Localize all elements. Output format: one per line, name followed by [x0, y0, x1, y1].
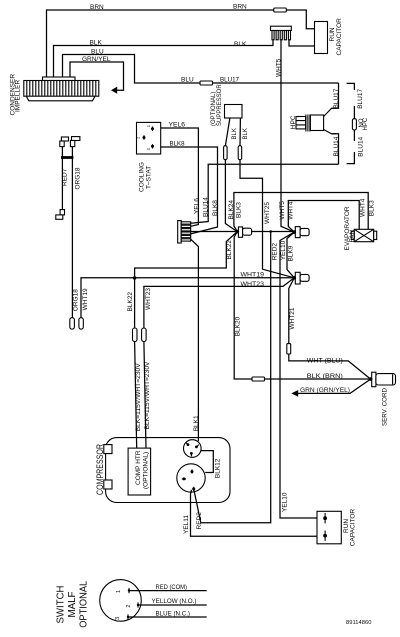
svg-text:WHT21: WHT21 — [289, 307, 296, 329]
svg-text:HPC: HPC — [363, 117, 369, 130]
svg-text:BLU14: BLU14 — [333, 136, 340, 156]
svg-text:BLK (BRN): BLK (BRN) — [307, 373, 343, 380]
svg-text:WHT4: WHT4 — [287, 201, 294, 220]
svg-text:WHT25: WHT25 — [264, 202, 271, 224]
svg-text:BLK20: BLK20 — [235, 316, 242, 336]
svg-text:BLK: BLK — [243, 128, 249, 139]
svg-text:BLK24: BLK24 — [228, 200, 235, 220]
svg-text:BLK22: BLK22 — [127, 292, 134, 312]
svg-text:BLU17: BLU17 — [220, 76, 239, 83]
svg-text:CAPACITOR: CAPACITOR — [349, 509, 356, 547]
svg-text:WHT (BLU): WHT (BLU) — [307, 357, 343, 364]
svg-text:BLU14: BLU14 — [358, 136, 365, 156]
svg-text:YEL11: YEL11 — [183, 515, 190, 534]
svg-text:WHT5: WHT5 — [276, 58, 283, 77]
svg-text:RED (COM): RED (COM) — [156, 584, 188, 591]
svg-text:YEL6: YEL6 — [169, 121, 186, 128]
svg-text:BLK1: BLK1 — [193, 415, 200, 431]
svg-text:COMP HTR: COMP HTR — [135, 450, 142, 485]
svg-text:BLK3: BLK3 — [236, 202, 243, 218]
svg-text:CAPACITOR: CAPACITOR — [336, 18, 343, 56]
svg-text:RED7: RED7 — [61, 168, 68, 186]
svg-text:T–STAT: T–STAT — [145, 166, 152, 189]
svg-text:WHT23: WHT23 — [241, 281, 265, 288]
svg-text:BLUE (N.C.): BLUE (N.C.) — [156, 611, 191, 618]
svg-text:GRN (GRN/YEL): GRN (GRN/YEL) — [300, 387, 350, 394]
svg-text:2: 2 — [126, 605, 132, 608]
svg-text:BLK3: BLK3 — [369, 200, 376, 216]
svg-text:BRN: BRN — [90, 4, 104, 11]
svg-text:WHT19: WHT19 — [82, 288, 89, 310]
svg-text:GRN/YEL: GRN/YEL — [82, 56, 111, 63]
svg-text:BLK9: BLK9 — [288, 245, 295, 261]
svg-text:89114860: 89114860 — [346, 620, 372, 626]
svg-text:YELLOW (N.O.): YELLOW (N.O.) — [152, 598, 197, 605]
svg-text:FAN: FAN — [349, 230, 356, 243]
svg-text:BLK8: BLK8 — [170, 141, 185, 148]
svg-text:BLK=115V/WHT=230V: BLK=115V/WHT=230V — [136, 363, 142, 431]
svg-text:BLU: BLU — [91, 49, 104, 56]
svg-text:WHT5: WHT5 — [279, 201, 286, 220]
svg-text:HPC: HPC — [290, 115, 297, 129]
svg-text:YEL6: YEL6 — [194, 198, 201, 214]
svg-text:EVAPORATOR: EVAPORATOR — [344, 206, 351, 250]
svg-text:(OPTIONAL): (OPTIONAL) — [143, 452, 150, 489]
svg-text:BLU17: BLU17 — [357, 89, 364, 109]
svg-text:BLU17: BLU17 — [333, 88, 340, 108]
svg-text:RED2: RED2 — [196, 512, 203, 530]
svg-text:SWITCH: SWITCH — [55, 586, 66, 624]
svg-text:SERV. CORD: SERV. CORD — [381, 388, 388, 426]
svg-text:BLK=115V/WHT=230V: BLK=115V/WHT=230V — [145, 362, 151, 430]
svg-text:BLU: BLU — [181, 76, 194, 83]
svg-text:BLU14: BLU14 — [203, 197, 210, 217]
svg-text:COOLING: COOLING — [138, 162, 145, 192]
svg-text:YEL10: YEL10 — [282, 492, 289, 512]
svg-text:WHT23: WHT23 — [145, 288, 152, 310]
svg-text:ORG18: ORG18 — [74, 167, 81, 189]
svg-text:SUPPRESSOR: SUPPRESSOR — [217, 84, 223, 126]
svg-text:BLK: BLK — [232, 128, 238, 139]
svg-text:IMPELLER: IMPELLER — [15, 80, 22, 112]
svg-text:BRN: BRN — [233, 4, 247, 11]
svg-text:BLK22: BLK22 — [226, 240, 233, 260]
svg-text:1: 1 — [116, 590, 122, 593]
svg-text:3: 3 — [115, 617, 121, 620]
svg-text:RED2: RED2 — [271, 243, 278, 261]
svg-text:MALF: MALF — [67, 592, 78, 618]
svg-text:ORG18: ORG18 — [72, 289, 79, 311]
svg-text:BLK: BLK — [90, 40, 103, 47]
svg-text:COMPRESSOR: COMPRESSOR — [95, 444, 105, 495]
svg-text:WHT19: WHT19 — [241, 271, 265, 278]
svg-text:YEL10: YEL10 — [280, 240, 287, 260]
svg-text:OPTIONAL: OPTIONAL — [79, 580, 90, 627]
svg-text:BLK: BLK — [234, 41, 247, 48]
svg-text:BLK12: BLK12 — [215, 458, 222, 478]
svg-text:WHT4: WHT4 — [360, 198, 367, 217]
svg-text:BLK8: BLK8 — [212, 200, 219, 216]
